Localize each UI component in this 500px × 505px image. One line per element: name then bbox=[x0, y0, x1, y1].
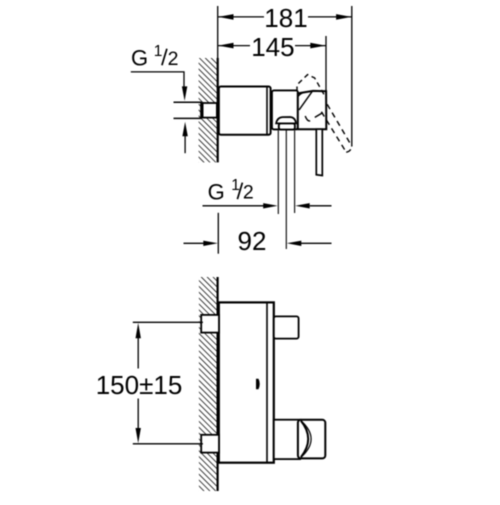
extension line from wall for 181/145 bbox=[217, 6, 219, 58]
dimension 181 bbox=[218, 3, 351, 33]
dimension 150±15 bbox=[96, 323, 183, 443]
lever head (top view) bbox=[298, 91, 327, 129]
label G 1/2 (top, inlet) bbox=[131, 43, 178, 70]
top protrusion outlet (bottom view) bbox=[274, 316, 299, 338]
outlet extension line left bbox=[277, 131, 279, 215]
wall union square bottom (bottom view) bbox=[201, 435, 219, 453]
extension line bottom for 150 bbox=[133, 443, 203, 445]
svg-text:2: 2 bbox=[243, 182, 254, 204]
outlet G1/2 dimension arrows bbox=[203, 203, 332, 208]
outlet centerline extension for 92 bbox=[285, 131, 287, 250]
logo mark on body bbox=[256, 379, 260, 389]
outlet dome (top view) bbox=[276, 117, 296, 123]
wall union square top (bottom view) bbox=[201, 315, 219, 333]
svg-text:1: 1 bbox=[154, 43, 163, 60]
label G 1/2 (bottom, outlet) bbox=[208, 177, 254, 204]
extension line 181 right bbox=[351, 6, 353, 147]
svg-text:145: 145 bbox=[251, 32, 294, 62]
dashed lever head (open position) bbox=[297, 75, 326, 99]
svg-text:150±15: 150±15 bbox=[96, 370, 183, 400]
extension line top for 150 bbox=[133, 321, 203, 323]
svg-text:1: 1 bbox=[231, 177, 240, 194]
outlet nut (top view) bbox=[279, 123, 295, 129]
lever grip (bottom view) bbox=[298, 420, 325, 459]
wall hatching (top view) bbox=[199, 58, 217, 162]
svg-text:G: G bbox=[208, 179, 225, 204]
svg-text:G: G bbox=[131, 45, 148, 70]
svg-text:181: 181 bbox=[264, 3, 307, 33]
lever neck (bottom view) bbox=[274, 420, 300, 459]
dashed lever lower edge fragments bbox=[305, 113, 323, 121]
leader line from G 1/2 with down arrow bbox=[131, 72, 188, 101]
wall surface edge line (top view) bbox=[217, 58, 219, 162]
extension line 145 right bbox=[325, 36, 327, 92]
up arrow below inlet pipe bbox=[182, 122, 187, 153]
outlet extension line right bbox=[294, 131, 296, 214]
mixer body (bottom view) bbox=[219, 302, 274, 462]
dimension 145 bbox=[218, 32, 325, 62]
inlet pipe (top view) bbox=[174, 102, 202, 118]
cartridge cap (top view) bbox=[272, 90, 298, 129]
dashed lever rod (open position) bbox=[321, 104, 352, 152]
lever rod solid (top view) bbox=[316, 129, 322, 175]
wall hatching (bottom view) bbox=[199, 277, 217, 491]
dimension 92 bbox=[184, 226, 332, 256]
wall surface edge line (bottom view) bbox=[217, 277, 219, 491]
svg-text:2: 2 bbox=[168, 48, 179, 70]
extension line below wall for 92 bbox=[217, 213, 219, 254]
pipe fitting in wall (top view) bbox=[201, 103, 217, 118]
svg-text:92: 92 bbox=[238, 226, 267, 256]
mixer body (top view) bbox=[219, 87, 271, 135]
